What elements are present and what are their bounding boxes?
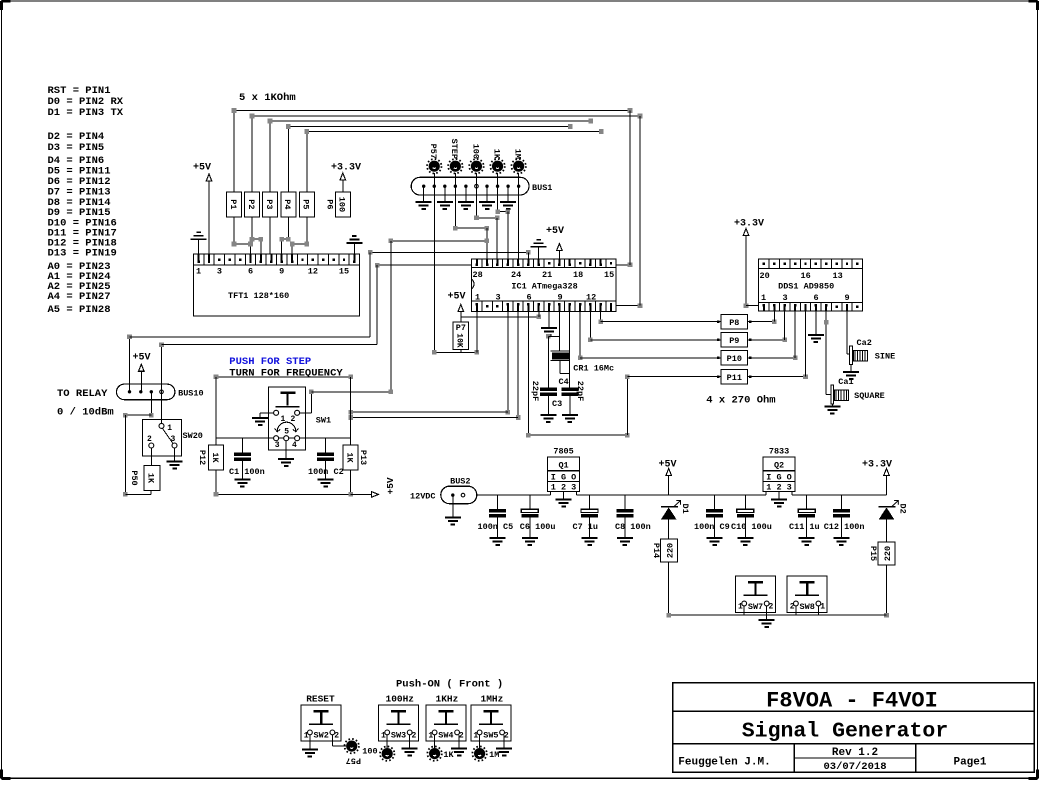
wire BUS10 pin1 to IC1 pin23 (y=252.4 line): [370, 251, 528, 253]
LED D2: [884, 469, 890, 476]
svg-text:A4 = PIN27: A4 = PIN27: [48, 291, 111, 303]
ground Q1: [556, 499, 572, 501]
wire LED 1K to IC1 pin25: [497, 173, 499, 212]
title block: [673, 683, 1034, 772]
wire DDS1 pin9 to Ca2: [846, 311, 848, 354]
coax Ca1 SQUARE: [831, 385, 834, 404]
wire IC1 pin15 side entry: [616, 264, 630, 266]
svg-text:D1 = PIN3 TX: D1 = PIN3 TX: [48, 107, 124, 119]
wire DDS1 pin7 to Ca1: [825, 311, 827, 394]
LED/jack STEP on BUS1: [450, 161, 461, 172]
svg-text:100Hz: 100Hz: [386, 693, 415, 704]
svg-text:2: 2: [334, 731, 339, 740]
TFT1 body box: [193, 265, 359, 316]
ground SW5 pin2: [496, 748, 512, 750]
svg-text:D1: D1: [680, 504, 690, 514]
svg-text:C8 100n: C8 100n: [615, 522, 651, 532]
IC1 bottom pin strip: [472, 301, 617, 311]
capacitor C3 22pF: [540, 388, 557, 391]
wire P4 to TFT pin9: [287, 217, 289, 239]
svg-text:5 x 1KOhm: 5 x 1KOhm: [239, 92, 296, 104]
svg-text:F8VOA - F4VOI: F8VOA - F4VOI: [766, 689, 938, 714]
ground SW2 pin1: [302, 749, 318, 751]
svg-text:7805: 7805: [553, 447, 573, 457]
svg-text:10K: 10K: [455, 333, 464, 348]
svg-text:1: 1: [475, 292, 480, 302]
svg-text:2: 2: [790, 603, 795, 612]
wire IC1 pin5 to SW1: [517, 311, 519, 417]
svg-text:21: 21: [542, 270, 552, 280]
wire BUS10 pin4 up: [161, 345, 163, 392]
resistor P13 1K: [343, 445, 358, 470]
connector BUS1 ellipse: [411, 177, 529, 195]
svg-text:100n C9: 100n C9: [694, 522, 730, 532]
wire bottom LED-test rail: [669, 614, 887, 616]
svg-text:1: 1: [167, 424, 172, 433]
svg-text:100n C5: 100n C5: [478, 522, 514, 532]
wire IC1 pin14 side entry: [616, 305, 640, 307]
svg-text:100: 100: [362, 746, 377, 756]
switch SW7: [736, 576, 776, 612]
svg-text:3: 3: [275, 441, 280, 450]
jack P57 (to reset): [346, 741, 357, 752]
ground BUS1 pin5: [465, 186, 467, 201]
ground DDS1 pin6: [815, 311, 817, 335]
svg-text:D3 = PIN5: D3 = PIN5: [48, 142, 105, 154]
svg-text:P13: P13: [358, 450, 368, 465]
svg-text:7833: 7833: [769, 447, 789, 457]
svg-text:P14: P14: [651, 543, 661, 558]
svg-text:P4: P4: [282, 199, 292, 209]
wire LED 1M to IC1 pin24: [518, 173, 520, 259]
svg-text:C6 100u: C6 100u: [520, 522, 556, 532]
+3.3V arrow to DDS1 pin1: [743, 229, 749, 236]
ground SW3 pin2: [402, 748, 418, 750]
svg-text:Push-ON ( Front ): Push-ON ( Front ): [396, 679, 503, 691]
wire P3 to TFT pin8: [269, 217, 271, 254]
svg-text:1M: 1M: [512, 149, 522, 159]
SW20 blade: [163, 429, 173, 444]
ground BUS1 pin7: [486, 186, 488, 201]
ground TFT pin1 (inverted): [198, 239, 200, 254]
connector TFT1 strip: [193, 254, 359, 265]
svg-text:22pF: 22pF: [530, 381, 540, 401]
svg-text:100: 100: [470, 144, 480, 159]
SW1 push plunger: [281, 391, 296, 393]
svg-text:+5V: +5V: [546, 226, 564, 237]
resistor P10 270: [721, 350, 747, 365]
wire P11 to DDS1 pin5: [748, 376, 806, 378]
svg-text:2: 2: [459, 731, 464, 740]
svg-text:P8: P8: [729, 318, 739, 328]
wire IC1 pin4 to SW1: [507, 311, 509, 412]
svg-text:2: 2: [291, 415, 296, 424]
svg-text:PUSH FOR STEP: PUSH FOR STEP: [229, 356, 311, 368]
svg-text:Feuggelen J.M.: Feuggelen J.M.: [678, 757, 770, 769]
wire crystal bottom to pin10/C4: [559, 361, 561, 374]
svg-text:P12: P12: [197, 450, 207, 465]
svg-text:SW20: SW20: [183, 431, 203, 441]
connector BUS2 ellipse: [441, 486, 477, 504]
capacitor C2 100n: [325, 438, 327, 452]
svg-text:SQUARE: SQUARE: [854, 391, 885, 401]
wire P2 to TFT pin7: [251, 217, 253, 239]
svg-text:1 2 3: 1 2 3: [551, 483, 577, 493]
LED D1: [666, 469, 672, 476]
svg-text:18: 18: [573, 270, 583, 280]
svg-text:1: 1: [820, 603, 825, 612]
wire BUS10 pin4 down to SW20 pin1: [161, 392, 163, 424]
wire +5V to IC1 pin7: [461, 316, 539, 318]
ground C8: [617, 537, 633, 539]
switch SW8: [787, 576, 827, 612]
svg-text:24: 24: [511, 270, 521, 280]
svg-text:+5V: +5V: [447, 291, 465, 302]
svg-text:1K: 1K: [210, 452, 220, 463]
coax Ca2 SINE: [850, 346, 853, 365]
wire P5 to TFT pin10: [306, 217, 308, 244]
wire P9 to DDS1 pin3: [748, 339, 785, 341]
wire P1 to TFT pin6: [233, 217, 235, 244]
jack 1M: [474, 748, 485, 759]
wire SW1 pin2 up: [300, 412, 312, 414]
capacitor C8: [624, 495, 626, 509]
wire LED P57 down to reset net: [433, 173, 435, 352]
svg-text:D2: D2: [897, 504, 907, 514]
ground SW7/SW8: [759, 619, 775, 621]
svg-text:12VDC: 12VDC: [410, 492, 436, 502]
svg-text:100n C2: 100n C2: [308, 467, 344, 477]
svg-text:3: 3: [496, 292, 501, 302]
ground C9: [707, 537, 723, 539]
svg-text:+5V: +5V: [658, 460, 676, 471]
svg-text:1: 1: [738, 603, 743, 612]
jack 100: [382, 748, 393, 759]
IC U1 IC1 ATmega328 body: [472, 259, 617, 312]
svg-text:1MHz: 1MHz: [481, 693, 504, 704]
svg-text:12: 12: [586, 292, 596, 302]
svg-text:P2: P2: [246, 199, 256, 209]
capacitor C6: [529, 495, 531, 509]
svg-text:Signal Generator: Signal Generator: [742, 720, 948, 744]
svg-text:STEP: STEP: [449, 139, 459, 159]
svg-text:C11 1u: C11 1u: [789, 522, 820, 532]
svg-text:1: 1: [428, 731, 433, 740]
svg-text:C7 1u: C7 1u: [573, 522, 599, 532]
wire P5 top lead: [306, 132, 308, 192]
ground C3: [540, 414, 556, 416]
svg-text:1: 1: [473, 731, 478, 740]
svg-text:IC1 ATmega328: IC1 ATmega328: [511, 282, 577, 292]
resistor P8 270: [721, 314, 747, 329]
+5V arrow (right) on SW1 bottom rail: [372, 492, 379, 498]
svg-text:CR1 16Mc: CR1 16Mc: [573, 364, 614, 374]
svg-text:P3: P3: [264, 199, 274, 209]
wire IC1 pin6 to P11: [527, 311, 529, 435]
resistor P7 10K: [453, 322, 469, 350]
svg-text:D13 = PIN19: D13 = PIN19: [48, 248, 117, 260]
IC DDS1 AD9850 body: [759, 259, 863, 311]
capacitor C1 100n: [241, 438, 243, 452]
svg-text:4 x 270 Ohm: 4 x 270 Ohm: [706, 395, 775, 407]
svg-text:220: 220: [883, 546, 893, 561]
resistor P6 100: [335, 192, 350, 217]
svg-text:BUS2: BUS2: [450, 477, 470, 487]
resistor P1 1K: [227, 192, 242, 217]
wire P8 to DDS1 pin2: [748, 321, 775, 323]
LED/jack 100 on BUS1: [471, 161, 482, 172]
LED/jack 1K on BUS1: [492, 161, 503, 172]
svg-text:+5V: +5V: [132, 353, 150, 364]
capacitor C5: [497, 495, 499, 509]
ground C11: [799, 537, 815, 539]
svg-text:2: 2: [769, 603, 774, 612]
resistor P5 1K: [299, 192, 314, 217]
resistor P14 220: [660, 539, 677, 562]
svg-text:Q2: Q2: [774, 461, 784, 471]
svg-text:9: 9: [558, 292, 563, 302]
svg-text:22pF: 22pF: [575, 381, 585, 401]
svg-text:+5V: +5V: [193, 163, 211, 174]
svg-text:220: 220: [666, 543, 676, 558]
resistor P50 1K: [150, 448, 152, 466]
svg-text:1: 1: [304, 731, 309, 740]
svg-text:P7: P7: [456, 323, 466, 333]
svg-text:SW1: SW1: [316, 416, 331, 426]
wire P4 top lead: [287, 127, 289, 192]
svg-text:12: 12: [308, 266, 318, 276]
ground Q2: [771, 499, 787, 501]
wire LED STEP to IC1 pin27: [454, 173, 456, 228]
svg-text:SINE: SINE: [875, 352, 895, 362]
ground BUS2 pin1: [452, 495, 454, 517]
wire crystal to C3: [546, 334, 551, 339]
svg-text:TFT1 128*160: TFT1 128*160: [228, 291, 289, 301]
svg-text:20: 20: [760, 271, 770, 281]
svg-text:13: 13: [833, 271, 843, 281]
wire IC1 pin13 to P8: [600, 311, 602, 321]
resistor P9 270: [721, 332, 747, 347]
svg-text:C12 100n: C12 100n: [824, 522, 865, 532]
capacitor C9: [714, 495, 716, 509]
svg-text:TO RELAY: TO RELAY: [57, 388, 108, 400]
LED/jack 1M on BUS1: [513, 161, 524, 172]
svg-text:9: 9: [845, 293, 850, 303]
ground SW4 pin2: [451, 748, 467, 750]
ground IC1 pin22 (inverted above): [538, 247, 540, 259]
wire BUS10 pin1 up: [129, 337, 131, 392]
wire SW1 row: [216, 437, 351, 439]
svg-text:BUS1: BUS1: [532, 183, 552, 193]
svg-text:6: 6: [814, 293, 819, 303]
svg-text:SW2: SW2: [314, 731, 329, 741]
svg-text:16: 16: [801, 271, 811, 281]
svg-text:1K: 1K: [443, 750, 454, 760]
wire BUS10 pin4 to IC1 pin28 (y=265.2 line): [377, 264, 472, 266]
svg-text:2: 2: [147, 435, 152, 444]
svg-text:1: 1: [761, 293, 766, 303]
ground SW1 pin1: [260, 412, 273, 414]
svg-text:Q1: Q1: [558, 461, 568, 471]
svg-text:+3.3V: +3.3V: [734, 219, 764, 230]
capacitor C12: [840, 495, 842, 509]
jack 1K: [429, 748, 440, 759]
svg-text:C1 100n: C1 100n: [229, 467, 265, 477]
svg-text:+3.3V: +3.3V: [862, 460, 892, 471]
+5V arrow to IC1 pin20: [557, 244, 563, 251]
svg-text:1KHz: 1KHz: [436, 693, 459, 704]
wire LED 100 to IC1 pin26: [475, 173, 477, 218]
svg-text:03/07/2018: 03/07/2018: [823, 761, 886, 773]
svg-text:C10 100u: C10 100u: [731, 522, 772, 532]
ground C5: [490, 537, 506, 539]
svg-text:1 2 3: 1 2 3: [766, 483, 792, 493]
SW1 outer wires: [216, 376, 351, 378]
SW1 pins 1,2: [274, 410, 279, 415]
svg-text:2: 2: [504, 731, 509, 740]
IC1 top pin strip: [472, 259, 617, 268]
svg-text:SW8: SW8: [800, 602, 815, 612]
rotary encoder SW1 box: [268, 387, 305, 450]
ground C1: [234, 479, 250, 481]
ground C12: [833, 537, 849, 539]
resistor P15 220: [878, 542, 895, 565]
svg-text:Rev 1.2: Rev 1.2: [832, 747, 878, 759]
svg-text:P11: P11: [727, 373, 742, 383]
connector BUS10 ellipse: [117, 384, 175, 400]
svg-text:9: 9: [279, 266, 284, 276]
ground TFT pin16 (inverted): [353, 243, 355, 254]
ground C7: [582, 537, 598, 539]
resistor P12 1K: [209, 445, 224, 470]
wire IC1 pin11 to P10: [579, 311, 581, 358]
SW1 rotation arc: [277, 422, 296, 431]
svg-text:1: 1: [196, 266, 201, 276]
ground C2: [318, 479, 334, 481]
ground Ca1: [824, 406, 840, 408]
svg-text:P10: P10: [727, 354, 742, 364]
capacitor C10: [744, 495, 746, 509]
svg-text:C4: C4: [559, 377, 569, 387]
svg-text:6: 6: [248, 266, 253, 276]
svg-text:5: 5: [284, 428, 289, 437]
svg-text:15: 15: [604, 270, 614, 280]
+3.3V arrow above P6: [340, 173, 346, 180]
wire BUS10 pin3 to P50: [150, 392, 152, 415]
svg-text:P1: P1: [228, 199, 238, 209]
ground BUS1 pin3: [444, 186, 446, 201]
crystal CR1 16Mc: [558, 311, 560, 351]
svg-text:+3.3V: +3.3V: [331, 163, 361, 174]
svg-text:A5 = PIN28: A5 = PIN28: [48, 304, 111, 316]
svg-text:BUS10: BUS10: [178, 388, 204, 398]
+5V arrow above P7: [458, 305, 464, 312]
ground C10: [737, 537, 753, 539]
resistor P3 1K: [263, 192, 278, 217]
SW1 pins 3,5,4: [274, 436, 279, 441]
svg-text:P6: P6: [325, 199, 335, 209]
wire P7 bottom / reset row: [434, 351, 477, 353]
svg-text:28: 28: [473, 270, 483, 280]
svg-text:1K: 1K: [491, 149, 501, 160]
wire P1 top lead: [233, 111, 235, 192]
power rail wire: [477, 494, 551, 496]
svg-text:P9: P9: [729, 336, 739, 346]
capacitor C11: [806, 495, 808, 509]
wire P10 to DDS1 pin4: [748, 357, 796, 359]
capacitor C4 22pF: [561, 388, 578, 391]
svg-text:1M: 1M: [489, 750, 499, 760]
wire IC1 pin12 to P9: [589, 311, 591, 340]
DDS1 top pin strip: [759, 259, 863, 269]
ground C4: [562, 414, 578, 416]
LED/jack P57 on BUS1: [429, 161, 440, 172]
svg-text:2: 2: [412, 731, 417, 740]
svg-text:0 / 10dBm: 0 / 10dBm: [57, 407, 114, 419]
svg-text:100: 100: [337, 197, 347, 212]
svg-text:P5: P5: [301, 199, 311, 209]
ground IC1 pin8: [548, 311, 550, 327]
resistor P4 1K: [281, 192, 296, 217]
svg-text:1K: 1K: [345, 452, 355, 463]
resistor P11 270: [721, 369, 747, 384]
ground BUS1 pin9: [507, 186, 509, 201]
svg-text:Ca2: Ca2: [857, 338, 872, 348]
capacitor C7: [589, 495, 591, 509]
svg-text:3: 3: [217, 266, 222, 276]
svg-text:SW7: SW7: [748, 602, 763, 612]
svg-text:P57: P57: [428, 144, 438, 159]
switch SW2 RESET: [301, 705, 341, 741]
svg-text:P57: P57: [346, 756, 361, 766]
ground SW1 pin5: [285, 441, 287, 459]
svg-text:DDS1 AD9850: DDS1 AD9850: [778, 282, 834, 292]
wire P2 top lead: [251, 116, 253, 192]
svg-text:3: 3: [783, 293, 788, 303]
+5V arrow to TFT pin2: [206, 174, 212, 181]
svg-text:6: 6: [527, 292, 532, 302]
DDS1 bottom pin strip: [759, 303, 863, 312]
svg-text:4: 4: [292, 441, 297, 450]
ground BUS1 pin1: [423, 186, 425, 201]
wire encoder pin2 net up to IC1 pin27 (y=240.9 line): [391, 240, 487, 242]
svg-text:P50: P50: [129, 470, 139, 485]
svg-text:SW5: SW5: [483, 731, 498, 741]
svg-text:15: 15: [339, 266, 349, 276]
switch SW20 box: [143, 419, 182, 456]
ground SW20 pin3: [174, 448, 176, 461]
svg-text:1K: 1K: [146, 473, 156, 484]
svg-text:Page1: Page1: [953, 757, 986, 769]
ground C6: [522, 537, 538, 539]
svg-text:1: 1: [381, 731, 386, 740]
svg-text:RESET: RESET: [306, 693, 335, 704]
+5V arrow to BUS10 pin2: [139, 364, 145, 371]
svg-text:SW3: SW3: [391, 731, 406, 741]
wire P3 top lead: [269, 121, 271, 192]
ground Ca2: [843, 371, 859, 373]
svg-text:C3: C3: [552, 399, 562, 409]
svg-text:P15: P15: [868, 546, 878, 561]
svg-text:SW4: SW4: [438, 731, 453, 741]
svg-text:TURN FOR FREQUENCY: TURN FOR FREQUENCY: [229, 368, 343, 380]
resistor P2 1K: [245, 192, 260, 217]
svg-text:+5V: +5V: [385, 477, 396, 494]
